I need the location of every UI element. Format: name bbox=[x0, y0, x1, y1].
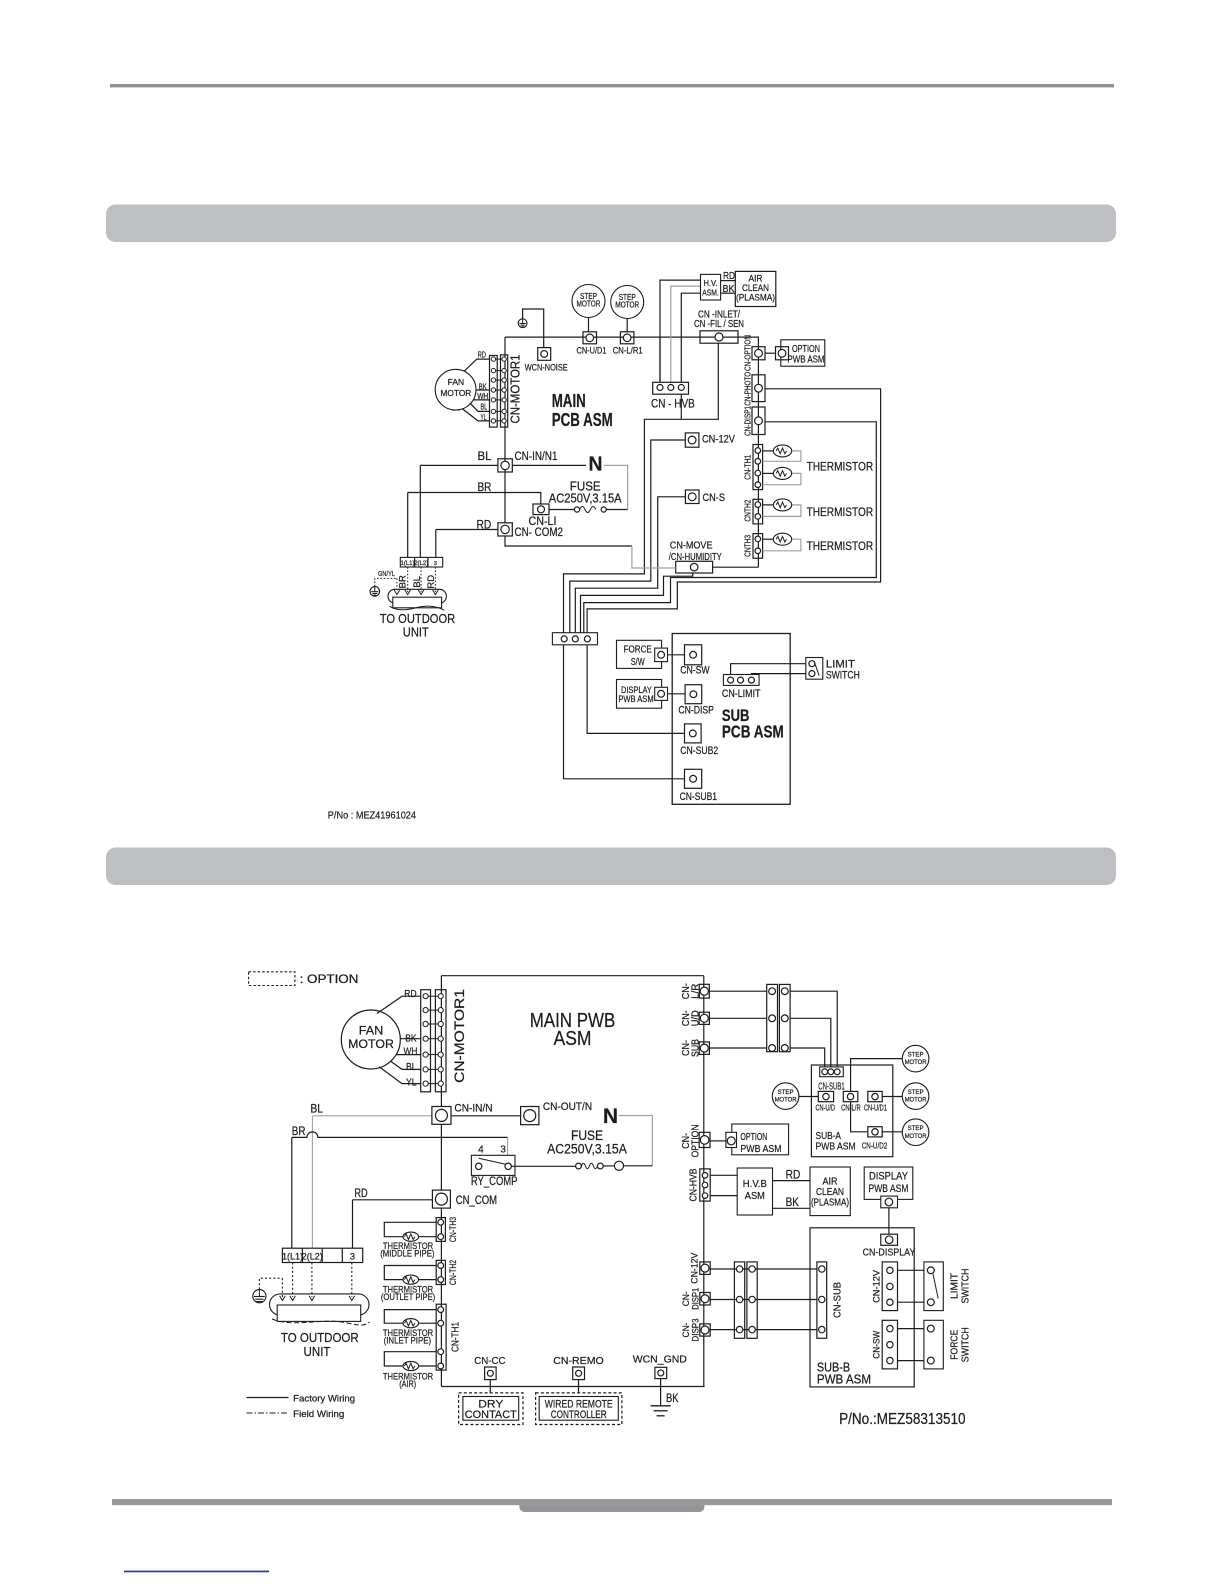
svg-text:CN-SW: CN-SW bbox=[680, 665, 710, 677]
svg-text:MOTOR: MOTOR bbox=[577, 300, 601, 309]
svg-text:MAIN: MAIN bbox=[552, 390, 586, 411]
svg-text:CN-OUT/N: CN-OUT/N bbox=[543, 1101, 592, 1113]
svg-text:FAN: FAN bbox=[359, 1025, 384, 1037]
svg-text:CN-12V: CN-12V bbox=[702, 433, 735, 445]
svg-text:PCB ASM: PCB ASM bbox=[552, 409, 613, 430]
svg-text:CN-DISPLAY: CN-DISPLAY bbox=[863, 1247, 916, 1259]
svg-text:U/D: U/D bbox=[690, 1010, 701, 1026]
svg-text:(PLASMA): (PLASMA) bbox=[811, 1198, 849, 1209]
svg-text:Factory Wiring: Factory Wiring bbox=[293, 1394, 355, 1405]
svg-text:CNTH2: CNTH2 bbox=[743, 499, 753, 521]
svg-text:THERMISTOR: THERMISTOR bbox=[807, 539, 874, 553]
svg-text:WH: WH bbox=[477, 392, 488, 401]
svg-text:BL: BL bbox=[481, 402, 488, 411]
svg-text:UNIT: UNIT bbox=[403, 625, 429, 640]
svg-text:CN-CC: CN-CC bbox=[474, 1355, 506, 1367]
svg-text:ASM: ASM bbox=[745, 1190, 765, 1202]
svg-text:CN-OPTION: CN-OPTION bbox=[743, 335, 753, 371]
svg-text:1(L1): 1(L1) bbox=[282, 1251, 303, 1261]
svg-text:DISPLAY: DISPLAY bbox=[869, 1170, 909, 1182]
svg-text:MOTOR: MOTOR bbox=[775, 1097, 797, 1104]
svg-text:SWITCH: SWITCH bbox=[960, 1327, 972, 1362]
svg-text:SWITCH: SWITCH bbox=[826, 669, 860, 681]
svg-text:CN-TH2: CN-TH2 bbox=[448, 1260, 459, 1285]
svg-text:PWB ASM: PWB ASM bbox=[740, 1143, 781, 1155]
svg-text:CN-12V: CN-12V bbox=[872, 1269, 883, 1303]
svg-text:3: 3 bbox=[434, 561, 437, 567]
svg-text:MOTOR: MOTOR bbox=[440, 389, 471, 398]
svg-text:(MIDDLE PIPE): (MIDDLE PIPE) bbox=[380, 1249, 434, 1259]
svg-text:PCB ASM: PCB ASM bbox=[722, 722, 784, 742]
svg-text:THERMISTOR: THERMISTOR bbox=[807, 459, 874, 473]
svg-text:CN-U/D1: CN-U/D1 bbox=[864, 1102, 887, 1112]
svg-text:CN-SUB2: CN-SUB2 bbox=[680, 745, 718, 757]
svg-text:CNTH3: CNTH3 bbox=[743, 535, 753, 557]
svg-text:RD: RD bbox=[426, 575, 437, 589]
svg-text:: OPTION: : OPTION bbox=[300, 974, 359, 986]
svg-text:CONTACT: CONTACT bbox=[465, 1409, 517, 1421]
svg-text:WH: WH bbox=[404, 1045, 418, 1057]
svg-text:BK: BK bbox=[723, 284, 735, 295]
svg-text:STEP: STEP bbox=[908, 1125, 924, 1132]
svg-text:(INLET PIPE): (INLET PIPE) bbox=[384, 1336, 432, 1346]
svg-text:N: N bbox=[603, 1105, 618, 1128]
svg-text:CN-S: CN-S bbox=[703, 492, 726, 504]
svg-text:H.V.: H.V. bbox=[704, 278, 718, 288]
svg-text:MOTOR: MOTOR bbox=[905, 1097, 927, 1104]
svg-text:CN-DISP1: CN-DISP1 bbox=[743, 406, 753, 436]
svg-text:BL: BL bbox=[310, 1104, 323, 1116]
svg-text:CN-TH3: CN-TH3 bbox=[448, 1217, 459, 1242]
svg-text:BL: BL bbox=[412, 576, 423, 588]
svg-text:THERMISTOR: THERMISTOR bbox=[807, 505, 874, 519]
svg-text:CN-TH1: CN-TH1 bbox=[743, 455, 753, 480]
svg-text:CN-TH1: CN-TH1 bbox=[451, 1322, 462, 1352]
svg-text:PWB ASM: PWB ASM bbox=[869, 1183, 909, 1195]
svg-text:ASM: ASM bbox=[554, 1028, 592, 1050]
svg-text:CN-L/R1: CN-L/R1 bbox=[613, 346, 643, 356]
svg-text:STEP: STEP bbox=[908, 1089, 924, 1096]
svg-text:CN-IN/N1: CN-IN/N1 bbox=[515, 451, 558, 463]
svg-text:CN-U/D1: CN-U/D1 bbox=[577, 346, 607, 356]
svg-text:Field Wiring: Field Wiring bbox=[293, 1409, 344, 1420]
svg-text:2(L2): 2(L2) bbox=[414, 561, 428, 567]
svg-text:TO OUTDOOR: TO OUTDOOR bbox=[281, 1330, 359, 1345]
svg-text:CN_COM: CN_COM bbox=[456, 1195, 497, 1207]
svg-text:SUB: SUB bbox=[690, 1039, 701, 1057]
svg-text:S/W: S/W bbox=[631, 657, 645, 668]
svg-text:MOTOR: MOTOR bbox=[905, 1133, 927, 1140]
svg-text:MOTOR: MOTOR bbox=[615, 301, 639, 310]
svg-text:AIR: AIR bbox=[823, 1176, 838, 1187]
svg-text:WCN_GND: WCN_GND bbox=[633, 1354, 688, 1366]
svg-text:BL: BL bbox=[478, 451, 492, 463]
svg-text:RD: RD bbox=[786, 1167, 801, 1181]
svg-text:GN/YL: GN/YL bbox=[378, 571, 395, 578]
svg-text:OPTION: OPTION bbox=[690, 1124, 701, 1157]
svg-text:OPTION: OPTION bbox=[792, 344, 820, 355]
svg-text:PWB ASM: PWB ASM bbox=[788, 354, 825, 365]
svg-text:CN-U/D: CN-U/D bbox=[816, 1102, 836, 1112]
svg-text:YL: YL bbox=[481, 413, 487, 422]
svg-text:BK: BK bbox=[405, 1032, 416, 1044]
svg-text:N: N bbox=[589, 454, 603, 476]
svg-text:CN-DISP: CN-DISP bbox=[678, 705, 714, 717]
svg-text:CN-SW: CN-SW bbox=[872, 1331, 883, 1359]
svg-text:BK: BK bbox=[666, 1393, 679, 1405]
svg-text:STEP: STEP bbox=[778, 1089, 794, 1096]
svg-text:CN-LIMIT: CN-LIMIT bbox=[722, 688, 761, 700]
svg-text:3: 3 bbox=[350, 1251, 355, 1262]
svg-text:CN - HVB: CN - HVB bbox=[651, 397, 695, 411]
svg-text:L/R: L/R bbox=[690, 984, 701, 999]
svg-text:PWB ASM: PWB ASM bbox=[817, 1373, 871, 1387]
svg-text:UNIT: UNIT bbox=[304, 1344, 331, 1359]
svg-text:MOTOR: MOTOR bbox=[905, 1059, 927, 1066]
svg-text:CN- COM2: CN- COM2 bbox=[515, 527, 564, 539]
svg-text:STEP: STEP bbox=[908, 1051, 924, 1058]
svg-text:BR: BR bbox=[292, 1126, 306, 1138]
svg-text:CN-12V: CN-12V bbox=[690, 1252, 701, 1284]
svg-text:WCN-NOISE: WCN-NOISE bbox=[525, 363, 568, 373]
svg-text:2(L2): 2(L2) bbox=[302, 1251, 323, 1261]
svg-text:CN-HVB: CN-HVB bbox=[689, 1168, 700, 1201]
svg-text:CONTROLLER: CONTROLLER bbox=[551, 1409, 607, 1421]
svg-text:CN -FIL / SEN: CN -FIL / SEN bbox=[694, 319, 744, 330]
svg-text:BK: BK bbox=[786, 1195, 799, 1209]
svg-text:(AIR): (AIR) bbox=[399, 1379, 416, 1389]
svg-text:CN-PHOTO: CN-PHOTO bbox=[743, 372, 753, 406]
svg-text:1(L1): 1(L1) bbox=[400, 561, 414, 567]
svg-text:FORCE: FORCE bbox=[624, 645, 652, 656]
svg-text:CN-SUB1: CN-SUB1 bbox=[680, 791, 717, 803]
svg-text:(OUTLET PIPE): (OUTLET PIPE) bbox=[381, 1292, 435, 1302]
svg-text:FAN: FAN bbox=[448, 378, 465, 387]
svg-text:RY_COMP: RY_COMP bbox=[471, 1176, 518, 1188]
svg-text:BL: BL bbox=[406, 1061, 417, 1073]
svg-text:RD: RD bbox=[354, 1188, 367, 1200]
svg-text:CN-SUB: CN-SUB bbox=[832, 1282, 844, 1318]
svg-text:(PLASMA): (PLASMA) bbox=[736, 293, 775, 304]
svg-text:ASM.: ASM. bbox=[702, 288, 719, 298]
svg-text:3: 3 bbox=[500, 1144, 506, 1155]
svg-text:P/No : MEZ41961024: P/No : MEZ41961024 bbox=[328, 810, 416, 821]
svg-text:PWB ASM: PWB ASM bbox=[618, 694, 653, 705]
svg-text:CN-U/D2: CN-U/D2 bbox=[862, 1140, 888, 1150]
svg-text:CN-MOTOR1: CN-MOTOR1 bbox=[509, 354, 523, 423]
svg-text:CN-IN/N: CN-IN/N bbox=[454, 1103, 492, 1115]
svg-text:H.V.B: H.V.B bbox=[743, 1178, 767, 1190]
svg-text:BR: BR bbox=[397, 575, 408, 588]
svg-text:SWITCH: SWITCH bbox=[960, 1269, 972, 1304]
svg-text:RD: RD bbox=[404, 988, 417, 1000]
svg-text:MOTOR: MOTOR bbox=[348, 1039, 394, 1051]
svg-text:AC250V,3.15A: AC250V,3.15A bbox=[547, 1142, 627, 1157]
svg-text:BK: BK bbox=[479, 382, 487, 391]
svg-text:PWB ASM: PWB ASM bbox=[816, 1140, 856, 1152]
svg-text:CN-MOTOR1: CN-MOTOR1 bbox=[451, 989, 467, 1083]
svg-text:CN-MOVE: CN-MOVE bbox=[670, 539, 713, 551]
svg-text:4: 4 bbox=[478, 1144, 484, 1155]
svg-text:YL: YL bbox=[406, 1076, 417, 1088]
svg-text:AC250V,3.15A: AC250V,3.15A bbox=[549, 492, 622, 506]
svg-text:CLEAN: CLEAN bbox=[816, 1187, 844, 1198]
svg-text:DISP1: DISP1 bbox=[690, 1288, 701, 1310]
svg-text:RD: RD bbox=[723, 271, 735, 282]
svg-text:P/No.:MEZ58313510: P/No.:MEZ58313510 bbox=[839, 1411, 966, 1428]
svg-text:OPTION: OPTION bbox=[740, 1131, 767, 1143]
svg-text:CN-REMO: CN-REMO bbox=[553, 1355, 603, 1367]
svg-text:DISP3: DISP3 bbox=[690, 1319, 701, 1342]
svg-text:RD: RD bbox=[478, 351, 486, 360]
